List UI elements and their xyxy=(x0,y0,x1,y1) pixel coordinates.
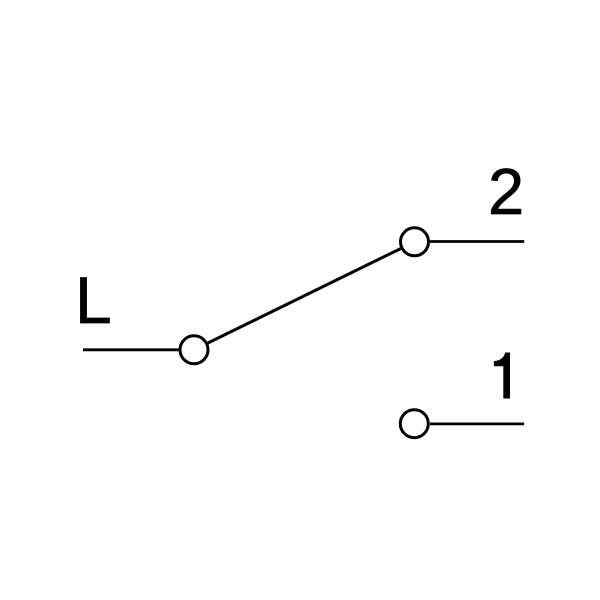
label 1 xyxy=(494,353,510,399)
svg-text:L: L xyxy=(75,263,112,337)
node 1 (lower contact circle) xyxy=(400,410,428,438)
svg-text:2: 2 xyxy=(488,155,524,228)
node 2 (upper contact circle) xyxy=(401,228,429,256)
node L (common terminal circle) xyxy=(180,336,208,364)
wire L (common lead) xyxy=(83,348,179,351)
wire (switch lever) xyxy=(208,249,401,343)
wire 1 xyxy=(430,422,524,425)
wire 2 xyxy=(430,240,524,243)
